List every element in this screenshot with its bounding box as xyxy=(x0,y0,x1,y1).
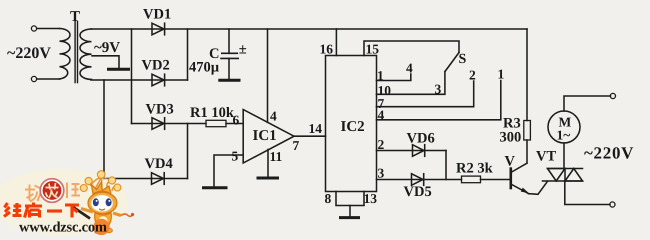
wire IC2 pin 15 to switch common xyxy=(364,41,459,56)
wire VD3 row to R1 xyxy=(132,123,207,125)
svg-text:IC1: IC1 xyxy=(253,128,277,144)
wire R2 to transistor base xyxy=(481,179,511,181)
wire IC2 pin 1 to contact 4 xyxy=(377,74,411,81)
svg-text:2: 2 xyxy=(378,137,385,152)
wire terminal top to primary xyxy=(37,28,60,30)
op-amp IC1 xyxy=(243,110,294,164)
watermark mascot arms and pen xyxy=(81,209,93,213)
output terminal bottom right xyxy=(610,202,615,207)
svg-text:www.dzsc.com: www.dzsc.com xyxy=(19,220,107,236)
wire IC2 pin 3 / VD5 row xyxy=(377,179,462,181)
diode VD6 xyxy=(413,145,425,157)
svg-text:S: S xyxy=(459,52,467,67)
secondary bottom wire through VD2 xyxy=(91,79,188,81)
wire rail down to R3 xyxy=(526,29,528,121)
IC2 box xyxy=(326,56,377,192)
svg-text:IC2: IC2 xyxy=(341,119,365,135)
svg-text:VD1: VD1 xyxy=(143,7,171,23)
svg-text:1~: 1~ xyxy=(557,128,571,143)
center tap common bar xyxy=(109,68,129,71)
diode VD5 xyxy=(412,174,424,186)
ground bar pin 11 xyxy=(258,177,278,180)
svg-text:VT: VT xyxy=(536,149,556,165)
AC input terminal bottom xyxy=(31,76,36,81)
wire motor top to terminal xyxy=(564,96,611,111)
triac VT xyxy=(543,169,583,182)
svg-text:VD4: VD4 xyxy=(145,156,173,172)
svg-text:VD3: VD3 xyxy=(146,102,174,118)
svg-text:1: 1 xyxy=(498,67,505,82)
svg-text:~220V: ~220V xyxy=(584,144,634,163)
svg-text:VD2: VD2 xyxy=(142,58,170,74)
svg-text:R2 3k: R2 3k xyxy=(456,161,494,177)
watermark mascot body xyxy=(95,213,112,231)
watermark mascot head xyxy=(88,192,117,214)
diode VD2 xyxy=(152,74,165,86)
wire VD6 cathode down to VD5 row xyxy=(445,151,447,180)
transformer core xyxy=(75,22,77,83)
svg-text:16: 16 xyxy=(320,42,334,57)
svg-text:VD6: VD6 xyxy=(407,131,435,147)
watermark url www.dzsc.com xyxy=(93,219,109,235)
top rail wire (secondary top to right corner) xyxy=(91,28,527,30)
transformer secondary winding xyxy=(80,29,92,79)
svg-text:2: 2 xyxy=(469,68,476,83)
svg-text:~9V: ~9V xyxy=(94,40,120,56)
resistor R1 xyxy=(206,120,226,126)
ground bar pin 5 xyxy=(204,186,227,189)
svg-text:470µ: 470µ xyxy=(189,60,220,76)
output terminal top right xyxy=(610,93,615,98)
watermark text wei ku yi xia xyxy=(4,203,79,218)
watermark outlined text zhao xin pian xyxy=(25,183,80,202)
wire tab to ground xyxy=(349,206,351,217)
wire IC2 pin 10 to contact 3 xyxy=(377,72,445,95)
motor M xyxy=(548,111,580,143)
svg-text:R1 10k: R1 10k xyxy=(190,105,235,121)
wire VD4 row xyxy=(104,178,188,180)
wire VD4 cathode riser xyxy=(187,124,189,179)
transformer T primary winding xyxy=(60,29,71,80)
wire IC2 pin 4 to contact 1 xyxy=(377,81,501,120)
svg-text:T: T xyxy=(70,9,80,25)
watermark magnifier ring xyxy=(40,179,64,203)
wire IC2 pin 16 supply xyxy=(335,29,337,56)
wire motor to triac xyxy=(563,143,565,169)
svg-text:6: 6 xyxy=(233,113,240,128)
svg-text:4: 4 xyxy=(270,109,277,124)
wire IC1 pin 5 to ground xyxy=(214,155,243,186)
svg-text:13: 13 xyxy=(364,191,378,206)
svg-text:15: 15 xyxy=(366,42,380,57)
resistor R2 xyxy=(462,176,481,183)
svg-text:1: 1 xyxy=(377,68,384,83)
diode VD4 xyxy=(152,173,165,185)
svg-text:4: 4 xyxy=(406,61,413,76)
wire IC2 pin 2 to VD6 xyxy=(377,150,447,152)
wire R1 to IC1 pin 6 xyxy=(226,123,243,125)
AC input terminal top xyxy=(31,26,36,31)
ground bar IC2 xyxy=(341,216,359,219)
resistor R3 xyxy=(524,121,531,141)
watermark mascot crown xyxy=(80,171,121,194)
capacitor common bar xyxy=(220,79,239,82)
IC2 pins 8 and 13 tab xyxy=(336,192,364,206)
wire R3 to collector xyxy=(526,140,528,163)
watermark glow xyxy=(0,169,128,235)
capacitor C xyxy=(221,29,238,79)
wire IC1 output to IC2 pin 14 xyxy=(294,135,326,137)
svg-text:5: 5 xyxy=(232,149,239,164)
wire IC1 pin 4 supply xyxy=(267,29,269,122)
transistor V xyxy=(511,163,529,193)
svg-text:14: 14 xyxy=(309,121,323,136)
wire rail to VD3 anode xyxy=(131,29,133,124)
svg-text:4: 4 xyxy=(378,108,385,123)
svg-text:11: 11 xyxy=(270,149,283,164)
svg-text:±: ± xyxy=(239,42,247,58)
svg-text:3: 3 xyxy=(378,166,385,181)
svg-text:7: 7 xyxy=(293,138,300,153)
watermark magnifier glyph xin xyxy=(46,183,59,198)
svg-text:V: V xyxy=(505,154,516,170)
wire emitter to triac gate xyxy=(529,181,548,194)
wire terminal bottom to primary xyxy=(37,78,60,80)
diode VD3 xyxy=(152,118,165,130)
wire IC1 pin 11 to ground xyxy=(267,150,269,177)
wire IC2 pin 7 to contact 2 xyxy=(377,81,474,107)
svg-text:~220V: ~220V xyxy=(7,45,51,62)
svg-text:3: 3 xyxy=(435,82,442,97)
watermark xyxy=(0,169,134,236)
diode VD1 xyxy=(152,23,165,35)
svg-text:8: 8 xyxy=(325,191,332,206)
svg-text:VD5: VD5 xyxy=(404,184,432,200)
svg-text:300: 300 xyxy=(500,130,522,146)
wire triac to bottom terminal xyxy=(565,181,610,205)
wire secondary bottom to VD4 anode xyxy=(103,80,105,179)
switch S arm xyxy=(445,53,459,72)
wire VD2 cathode riser xyxy=(187,29,189,80)
secondary center tap wire xyxy=(92,56,119,68)
